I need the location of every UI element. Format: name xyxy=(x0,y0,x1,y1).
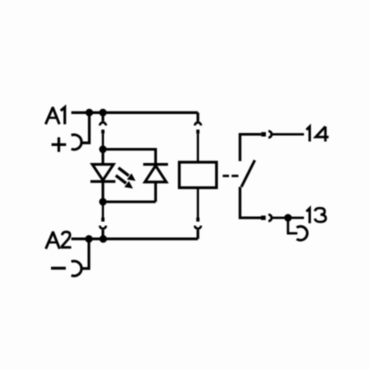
LED emission arrow 2 xyxy=(116,175,133,188)
relay contact bottom terminal xyxy=(240,187,261,218)
terminal label 14 xyxy=(306,127,328,142)
node junction dot on A2 rail (LED branch) xyxy=(99,235,107,243)
plug connection female socket (A1 to coil branch) xyxy=(195,113,201,126)
plug connection female socket (13 side) xyxy=(268,215,304,221)
mechanical linkage dashed line xyxy=(223,175,239,177)
wire bottom of parallel pair xyxy=(103,200,156,203)
plug connection male pin (contact to 14) xyxy=(261,132,266,136)
plug connection male pin (coil branch top) xyxy=(196,130,199,163)
terminal label A1 xyxy=(46,107,65,124)
relay contact moving blade xyxy=(241,160,254,187)
plus sign xyxy=(52,137,67,152)
wire from 13 node down to clamp xyxy=(288,218,297,234)
LED emission arrow 1 xyxy=(118,168,135,181)
clamp terminal at minus xyxy=(71,261,81,276)
node junction dot on A2 rail (clamp feed) xyxy=(85,235,93,243)
plug connection male pin (LED branch top) xyxy=(101,130,104,150)
plug connection female socket (A1 to module) xyxy=(100,113,106,126)
terminal label A2 xyxy=(46,232,71,249)
node dot bottom of LED/diode parallel pair xyxy=(99,198,107,206)
plug connection male pin (coil branch bottom) xyxy=(197,188,199,222)
wire A2 horizontal rail xyxy=(71,238,198,241)
node junction dot on A1 rail (LED branch) xyxy=(99,109,107,117)
clamp terminal at 13 xyxy=(297,226,308,240)
plug connection female socket (14 side) xyxy=(268,131,304,137)
node dot top of LED/diode parallel pair xyxy=(99,146,107,154)
minus sign xyxy=(51,267,66,270)
plug connection female socket (coil branch to A2) xyxy=(195,226,201,239)
wire from plus clamp up to A1 rail xyxy=(81,113,90,143)
wire from minus clamp up to A2 rail xyxy=(81,239,89,269)
plug connection female socket (module to A2) xyxy=(100,226,106,239)
relay coil K1 xyxy=(179,162,216,188)
clamp terminal at plus xyxy=(71,135,81,150)
plug connection male pin (LED branch bottom) xyxy=(102,202,104,222)
node junction dot on A1 rail (clamp feed) xyxy=(86,109,94,117)
terminal label 13 xyxy=(306,208,325,223)
LED indicator diode xyxy=(90,149,115,202)
wire top of parallel pair to diode branch xyxy=(103,149,156,164)
relay contact fixed terminal (top) xyxy=(240,134,261,161)
freewheeling diode xyxy=(143,164,168,201)
plug connection male pin (contact to 13) xyxy=(261,216,266,220)
node junction dot on 13 wire xyxy=(284,214,292,222)
wire A1 horizontal rail xyxy=(71,111,198,114)
